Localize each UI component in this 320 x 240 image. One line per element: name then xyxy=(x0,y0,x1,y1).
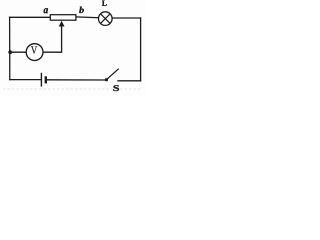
wire: top-left corner to rheostat xyxy=(10,16,51,18)
wire: rheostat to lamp xyxy=(76,16,99,19)
lamp X cross xyxy=(101,14,111,24)
rheostat a-b slide box xyxy=(50,15,76,21)
voltmeter circle xyxy=(26,44,43,61)
voltmeter V letter xyxy=(31,46,37,53)
wire: left vertical xyxy=(9,17,11,79)
rheostat wiper arrowhead xyxy=(59,21,65,27)
label a xyxy=(44,8,48,13)
label S xyxy=(113,85,119,91)
wire: voltmeter to rheostat wiper xyxy=(43,26,62,52)
battery long plate xyxy=(40,73,42,87)
switch blade xyxy=(106,69,118,80)
battery short thick plate xyxy=(45,76,47,83)
label b xyxy=(79,7,84,13)
wire: lamp to top-right corner xyxy=(112,17,141,19)
faint scan bleed line xyxy=(3,88,142,90)
switch contact dot xyxy=(105,78,108,81)
junction node dot xyxy=(8,50,12,54)
wire: bottom-left corner to battery xyxy=(10,79,41,81)
wire: bottom-right corner to switch xyxy=(118,80,141,82)
lamp L circle xyxy=(99,12,113,26)
wire: voltmeter branch from left wire xyxy=(10,51,26,53)
wire: right vertical xyxy=(140,18,142,81)
wire: battery to switch xyxy=(47,79,105,81)
label L xyxy=(102,1,107,6)
